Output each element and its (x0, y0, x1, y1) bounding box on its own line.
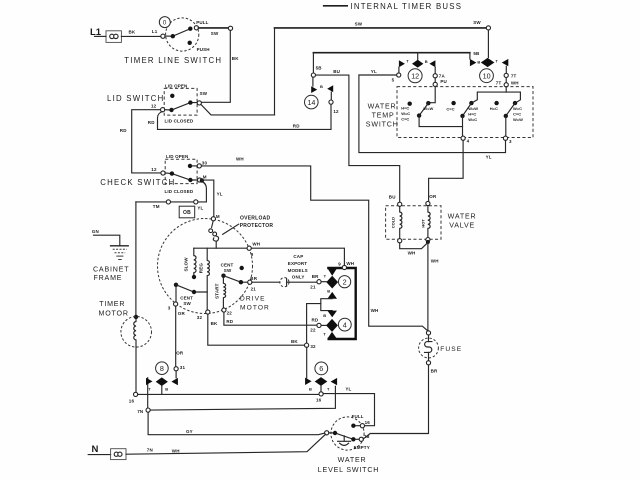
svg-text:RD: RD (293, 124, 300, 129)
timer contact 6 (305, 362, 337, 392)
centrifugal switch 1 (168, 283, 207, 311)
wire YL contact 6 to water level switch FULL (323, 387, 374, 426)
svg-text:SW: SW (211, 31, 219, 36)
node N (neutral terminal) (88, 444, 126, 459)
svg-text:C=C: C=C (446, 106, 454, 111)
legend: internal timer buss (324, 2, 463, 11)
svg-text:WATER: WATER (368, 103, 397, 111)
node 32 (drive motor) (197, 310, 210, 320)
svg-text:16: 16 (316, 398, 322, 403)
slow winding (183, 248, 196, 279)
svg-text:LID CLOSED: LID CLOSED (165, 189, 194, 194)
svg-text:SW: SW (473, 20, 481, 25)
wire OR terminal 3 to contact 8 (176, 306, 186, 367)
svg-text:C=C: C=C (401, 116, 409, 121)
label water valve (448, 213, 477, 230)
rail 7N to contact 6 T (150, 386, 335, 410)
svg-text:PU: PU (440, 79, 447, 84)
start winding (214, 278, 225, 308)
capacitor (export models) (252, 254, 317, 287)
wire PU to temp switch section 1 (430, 87, 435, 103)
svg-text:RD: RD (226, 319, 233, 324)
svg-text:8: 8 (160, 364, 164, 373)
cold valve coil (390, 202, 402, 243)
svg-text:MOTOR: MOTOR (99, 309, 129, 317)
svg-text:CENT: CENT (221, 263, 234, 268)
label water temp switch (366, 103, 399, 129)
svg-text:7N: 7N (147, 448, 153, 453)
svg-text:WH: WH (346, 261, 354, 266)
svg-text:B: B (477, 60, 480, 65)
svg-text:LEVEL SWITCH: LEVEL SWITCH (318, 466, 379, 474)
svg-text:30: 30 (202, 160, 208, 165)
buss 5B (311, 53, 470, 77)
label drive motor (240, 296, 270, 312)
timer contact 10 (470, 30, 508, 83)
temp switch section 3 (490, 101, 523, 136)
svg-text:M: M (216, 214, 220, 219)
svg-text:MOTOR: MOTOR (240, 305, 270, 312)
svg-text:21: 21 (310, 284, 316, 289)
svg-text:CABINET: CABINET (93, 265, 129, 273)
svg-text:32: 32 (197, 315, 203, 320)
svg-text:YL: YL (486, 155, 492, 160)
svg-text:WH: WH (511, 81, 519, 86)
node 16 (timer motor to rail) (134, 392, 138, 396)
svg-text:W=W: W=W (423, 106, 433, 111)
svg-text:CHECK SWITCH: CHECK SWITCH (100, 178, 175, 187)
node 32 (connector) (305, 343, 317, 349)
node 16 (contact 6) (316, 392, 323, 403)
svg-text:RD: RD (148, 120, 155, 125)
reg winding (199, 248, 210, 310)
wire 7T to temp switch sections 2 and 3 (472, 87, 506, 103)
svg-text:OVERLOAD: OVERLOAD (240, 216, 270, 222)
temp switch section 2 (446, 101, 478, 136)
svg-text:10: 10 (483, 71, 491, 80)
timer contact 12 (399, 53, 436, 83)
water valve box (386, 206, 441, 240)
svg-text:BK: BK (211, 321, 218, 326)
svg-text:12: 12 (151, 167, 157, 172)
svg-text:SW: SW (183, 301, 191, 306)
svg-text:FULL: FULL (352, 414, 364, 419)
svg-text:YL: YL (197, 205, 203, 210)
node 31 (contact 8) (174, 365, 185, 378)
svg-text:WH: WH (408, 251, 416, 256)
ground (cabinet frame) (93, 246, 129, 282)
wire OR terminal 4 to water valve hot (429, 140, 464, 201)
svg-text:OR: OR (176, 351, 184, 356)
svg-text:H=C: H=C (401, 105, 409, 110)
node M (drive motor) (211, 214, 220, 221)
svg-text:HOT: HOT (420, 219, 425, 228)
svg-text:MODELS: MODELS (288, 268, 308, 273)
svg-text:22: 22 (310, 328, 316, 333)
wire 32 connector to contact 6 (306, 347, 308, 378)
svg-text:CENT: CENT (180, 296, 193, 301)
svg-text:WATER: WATER (448, 213, 477, 221)
node 7A / PU (timer) (433, 73, 447, 86)
svg-text:W=C: W=C (401, 111, 410, 116)
wire WH terminal 9 to contact block (251, 248, 344, 265)
timer motor (99, 202, 152, 392)
svg-text:REG: REG (199, 263, 204, 274)
svg-text:TEMP: TEMP (372, 112, 395, 120)
wire WH check switch 30 to fuse (201, 156, 427, 330)
svg-text:0: 0 (163, 19, 167, 26)
svg-text:YL: YL (345, 387, 351, 392)
svg-text:C=C: C=C (513, 112, 521, 117)
node 21 (drive motor) (248, 276, 258, 291)
wire SW/BK from timer line switch down to lid switch (201, 30, 239, 102)
wire BR fuse to water level switch EMPTY (363, 365, 438, 439)
svg-text:EMPTY: EMPTY (354, 445, 370, 450)
timer contact 8 (146, 362, 178, 408)
svg-text:SLOW: SLOW (183, 257, 188, 272)
svg-text:WH: WH (371, 308, 379, 313)
wire WH valve commons to fuse (400, 240, 439, 331)
svg-text:B: B (165, 387, 168, 392)
svg-text:BU: BU (333, 69, 340, 74)
wire YL terminal 5 to terminal 3 (359, 69, 506, 159)
svg-text:RD: RD (120, 128, 127, 133)
svg-text:B: B (309, 386, 312, 391)
svg-text:W=C: W=C (468, 117, 477, 122)
svg-text:31: 31 (180, 365, 186, 370)
svg-text:12: 12 (333, 109, 339, 114)
svg-text:7A: 7A (439, 73, 446, 78)
drive motor boundary (158, 219, 253, 314)
svg-text:WH: WH (252, 241, 260, 246)
timer contact 14 (305, 77, 340, 114)
svg-text:COLD: COLD (390, 217, 395, 228)
svg-text:RD: RD (312, 318, 319, 323)
centrifugal switch 2 (221, 263, 248, 285)
svg-text:BR: BR (431, 369, 438, 374)
svg-text:LID OPEN: LID OPEN (166, 154, 188, 159)
node 5 (timer) (392, 73, 401, 83)
svg-text:WH: WH (236, 156, 244, 161)
svg-text:PULL: PULL (196, 20, 208, 25)
svg-text:12: 12 (151, 104, 157, 109)
svg-text:INTERNAL TIMER BUSS: INTERNAL TIMER BUSS (351, 2, 463, 11)
svg-text:START: START (214, 283, 219, 299)
svg-text:14: 14 (307, 98, 315, 107)
svg-text:16: 16 (365, 420, 371, 425)
wire L1 to timer line switch, BK (95, 29, 161, 36)
svg-text:GY: GY (186, 429, 193, 434)
internal timer buss SW (275, 20, 491, 115)
svg-text:VALVE: VALVE (449, 222, 475, 230)
svg-text:W=C: W=C (513, 106, 522, 111)
wire YL check switch M to drive motor M (200, 178, 223, 216)
wire lid SW diagonal to buss riser (201, 104, 275, 115)
svg-text:PROTECTOR: PROTECTOR (240, 223, 274, 229)
svg-text:B: B (425, 59, 428, 64)
svg-text:CAP: CAP (293, 254, 303, 259)
svg-text:SWITCH: SWITCH (366, 121, 399, 129)
svg-text:9: 9 (251, 252, 254, 257)
svg-text:OB: OB (183, 210, 191, 216)
svg-text:BR: BR (250, 276, 257, 281)
node L1 (line terminal) (90, 27, 121, 43)
svg-text:L1: L1 (152, 29, 158, 34)
svg-text:LID OPEN: LID OPEN (165, 83, 187, 88)
svg-text:7N: 7N (137, 409, 143, 414)
fuse (419, 331, 463, 365)
svg-text:ONLY: ONLY (292, 275, 305, 280)
timer contact 2 (310, 268, 350, 299)
svg-text:TM: TM (153, 204, 160, 209)
svg-text:9: 9 (338, 262, 341, 267)
svg-text:H=C: H=C (490, 106, 498, 111)
svg-text:FUSE: FUSE (440, 346, 462, 353)
svg-text:B: B (323, 313, 326, 318)
svg-text:WATER: WATER (338, 456, 367, 464)
svg-text:H=C: H=C (468, 112, 476, 117)
svg-text:M: M (203, 175, 207, 180)
svg-text:PUSH: PUSH (197, 47, 210, 52)
rail 16: timer motor / contact 8 / contact 6 (129, 394, 319, 403)
svg-text:DRIVE: DRIVE (240, 296, 266, 303)
node 9 (contact block) (338, 261, 354, 270)
timer contact 2/4 block frame (328, 268, 355, 339)
svg-text:12: 12 (411, 72, 419, 81)
wire TM check switch M to timer motor (136, 182, 207, 211)
svg-text:5: 5 (392, 78, 395, 83)
node 3 (temp switch) (503, 136, 512, 144)
OB box (179, 206, 195, 218)
wire contact 2 B to contact 4 B and fuse tap (321, 299, 332, 311)
wire motor common to slow/reg and terminal 9 (194, 247, 247, 249)
water temp switch box (397, 87, 533, 138)
svg-text:5B: 5B (473, 51, 480, 56)
svg-text:5B: 5B (316, 66, 323, 71)
svg-text:GN: GN (92, 229, 99, 234)
wire WH neutral to water level switch pivot (126, 434, 326, 454)
svg-text:BK: BK (291, 339, 298, 344)
svg-text:SW: SW (224, 268, 232, 273)
svg-text:SW: SW (200, 91, 208, 96)
svg-text:21: 21 (251, 286, 257, 291)
node 4 (temp switch) (461, 136, 470, 144)
svg-text:BR: BR (312, 274, 319, 279)
temp switch section 1 (401, 101, 462, 127)
svg-text:B: B (320, 84, 323, 89)
svg-text:OR: OR (178, 311, 186, 316)
timer contact 4 (310, 311, 351, 339)
wire RD terminal 22 to contact 4 (224, 312, 317, 325)
wire RD lid pivot to check switch pivot (120, 110, 161, 173)
svg-text:N: N (92, 444, 99, 455)
node 22 (drive motor) (222, 308, 232, 316)
svg-text:3: 3 (168, 305, 171, 310)
svg-text:2: 2 (343, 277, 347, 286)
svg-text:BU: BU (389, 195, 396, 200)
svg-text:WH: WH (431, 259, 439, 264)
svg-text:W=W: W=W (513, 117, 523, 122)
svg-text:TIMER LINE SWITCH: TIMER LINE SWITCH (124, 56, 222, 65)
svg-text:B: B (327, 289, 330, 294)
svg-text:4: 4 (467, 139, 470, 144)
ground GN wire (92, 229, 120, 246)
svg-text:BK: BK (129, 30, 136, 35)
node 9 (drive motor) (247, 241, 260, 256)
node 7N (137, 408, 150, 414)
svg-text:16: 16 (129, 398, 135, 403)
lid switch (107, 83, 208, 123)
overload protector (209, 216, 274, 249)
svg-text:TIMER: TIMER (99, 300, 125, 308)
svg-text:WH: WH (172, 449, 180, 454)
svg-text:YL: YL (371, 69, 377, 74)
svg-text:7T: 7T (496, 81, 502, 86)
wire BU 5B to water valve cold (316, 69, 400, 202)
svg-text:7T: 7T (511, 74, 517, 79)
check switch (100, 154, 207, 194)
svg-text:W=W: W=W (468, 106, 478, 111)
svg-text:YL: YL (217, 192, 223, 197)
svg-text:32: 32 (310, 344, 316, 349)
svg-text:FRAME: FRAME (94, 274, 123, 282)
svg-text:3: 3 (509, 139, 512, 144)
water level switch (318, 414, 379, 474)
svg-text:LID SWITCH: LID SWITCH (107, 94, 165, 103)
hot valve coil (420, 201, 430, 241)
svg-text:6: 6 (319, 364, 323, 373)
svg-text:22: 22 (227, 310, 233, 315)
svg-text:LID CLOSED: LID CLOSED (165, 119, 194, 124)
timer line switch (124, 17, 232, 65)
rail GY to water level switch pivot (148, 412, 325, 435)
svg-text:EXPORT: EXPORT (288, 261, 308, 266)
svg-text:OR: OR (429, 194, 437, 199)
svg-text:SW: SW (355, 22, 363, 27)
svg-text:BK: BK (232, 56, 239, 61)
wire BK terminal 32 to connector 32 (208, 314, 305, 345)
svg-text:4: 4 (343, 320, 347, 329)
wire RD lid pivot to timer contact 14 terminal 12 (148, 104, 331, 129)
node 7T / WH (timer) (496, 73, 519, 87)
